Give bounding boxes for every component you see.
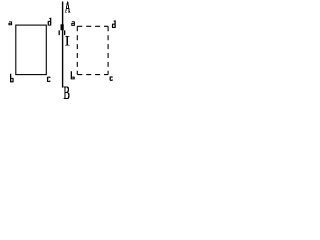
svg-text:B: B bbox=[63, 84, 70, 102]
svg-text:I: I bbox=[65, 33, 70, 49]
svg-text:A: A bbox=[65, 0, 71, 16]
